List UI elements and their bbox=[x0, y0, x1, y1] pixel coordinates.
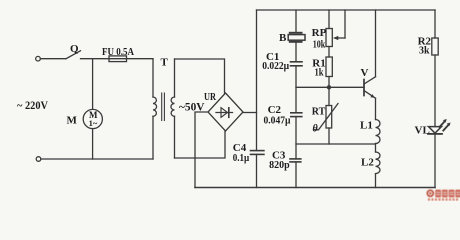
motor inner symbols bbox=[89, 110, 98, 128]
inductor L2 bbox=[376, 152, 381, 174]
wire left frame upper bbox=[256, 10, 258, 151]
svg-text:T: T bbox=[161, 57, 169, 69]
terminal bottom-left bbox=[36, 157, 41, 162]
label C3 bbox=[269, 149, 290, 171]
label C2 bbox=[264, 104, 292, 127]
wire bottom-left bbox=[41, 158, 153, 160]
watermark logo bbox=[427, 190, 460, 201]
wire bbox=[127, 58, 154, 60]
svg-text:L1: L1 bbox=[360, 120, 373, 132]
wire bbox=[295, 117, 297, 159]
svg-text:10k: 10k bbox=[313, 39, 326, 51]
fuse FU 0.5A bbox=[109, 56, 127, 62]
svg-text:M: M bbox=[67, 115, 78, 127]
thermistor RT bbox=[314, 104, 339, 130]
label C1 bbox=[262, 51, 290, 72]
svg-text:~50V: ~50V bbox=[179, 102, 205, 114]
svg-text:~ 220V: ~ 220V bbox=[17, 100, 49, 112]
bridge rectifier UR bbox=[208, 93, 243, 131]
svg-text:VL: VL bbox=[415, 125, 430, 137]
svg-text:820p: 820p bbox=[269, 159, 290, 171]
svg-text:FU 0.5A: FU 0.5A bbox=[102, 47, 134, 58]
label C4 bbox=[233, 142, 250, 164]
wire bbox=[328, 128, 330, 144]
wire base bbox=[296, 86, 364, 88]
wire left frame lower bbox=[256, 154, 258, 187]
wire bottom rail bbox=[195, 187, 435, 189]
wire motor branch lower bbox=[92, 129, 94, 159]
transformer T core bbox=[162, 93, 165, 121]
svg-text:1~: 1~ bbox=[89, 118, 98, 128]
terminal top-left bbox=[36, 56, 41, 61]
svg-text:1k: 1k bbox=[315, 67, 325, 79]
svg-text:UR: UR bbox=[204, 91, 217, 103]
svg-text:RT: RT bbox=[312, 106, 326, 118]
capacitor C3 bbox=[290, 159, 301, 162]
svg-text:B: B bbox=[279, 32, 287, 44]
wire bbox=[434, 134, 436, 188]
wire bridge minus output bbox=[195, 112, 208, 188]
svg-text:V: V bbox=[361, 67, 369, 79]
wire R2 top lead bbox=[434, 10, 436, 38]
wire RP top lead bbox=[328, 10, 330, 29]
capacitor C1 bbox=[291, 62, 303, 66]
svg-text:RP: RP bbox=[312, 27, 327, 39]
wire bbox=[328, 77, 330, 106]
wire bbox=[434, 55, 436, 127]
wire tap bbox=[296, 143, 376, 145]
label RP 10k bbox=[312, 27, 327, 51]
wire motor branch upper bbox=[92, 59, 94, 110]
svg-text:0.1µ: 0.1µ bbox=[233, 152, 250, 164]
wire bbox=[81, 58, 110, 60]
wire bbox=[295, 42, 297, 62]
label R1 1k bbox=[312, 58, 325, 79]
wire bbox=[375, 174, 377, 188]
wire bbox=[328, 47, 330, 58]
crystal B bbox=[288, 33, 305, 42]
capacitor C2 bbox=[291, 113, 302, 117]
wire secondary bottom to bridge bbox=[175, 132, 226, 159]
capacitor C4 bbox=[251, 151, 264, 155]
wire bbox=[41, 58, 67, 60]
switch Q bbox=[66, 51, 81, 59]
svg-text:0.047µ: 0.047µ bbox=[264, 114, 292, 126]
svg-text:L2: L2 bbox=[361, 156, 374, 168]
wire top rail bbox=[257, 9, 436, 11]
resistor R1 bbox=[326, 57, 332, 77]
transformer T secondary winding bbox=[171, 59, 175, 158]
transformer T primary winding bbox=[153, 59, 157, 159]
resistor R2 bbox=[432, 38, 438, 55]
wire bbox=[375, 144, 377, 153]
potentiometer RP bbox=[326, 10, 345, 47]
svg-text:3k: 3k bbox=[419, 45, 430, 57]
motor M bbox=[83, 109, 102, 128]
LED VL bbox=[428, 119, 451, 134]
inductor L1 bbox=[376, 120, 381, 144]
wire secondary top to bridge bbox=[175, 59, 225, 93]
svg-text:Q: Q bbox=[70, 43, 79, 55]
wire bbox=[295, 162, 297, 188]
svg-text:θ: θ bbox=[313, 124, 319, 135]
wire bbox=[295, 66, 297, 113]
node base junction bbox=[327, 85, 331, 89]
label R2 3k bbox=[418, 36, 432, 57]
svg-text:0.022µ: 0.022µ bbox=[262, 60, 290, 72]
transistor V bbox=[364, 10, 376, 98]
wire emitter lead bbox=[375, 98, 377, 119]
wire crystal top lead bbox=[295, 10, 297, 33]
wire bridge plus output bbox=[243, 112, 257, 114]
